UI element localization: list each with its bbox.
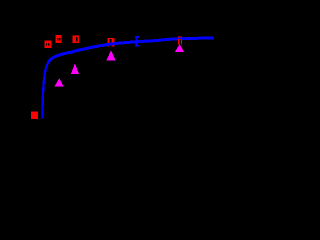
square S1	[44, 41, 51, 48]
triangle T2	[71, 63, 79, 73]
square S5	[178, 36, 182, 44]
blue theory curve (steep rise)	[42, 60, 50, 119]
square S6 (filled red, bottom left)	[31, 112, 38, 119]
triangle T4	[175, 44, 184, 52]
blue theory curve (saturation part)	[48, 38, 213, 62]
square S2	[56, 35, 62, 43]
blue error-bar data point	[135, 36, 139, 46]
triangle T3	[106, 50, 115, 60]
triangle T1	[54, 78, 64, 87]
square S4	[107, 38, 114, 47]
chart: excitation-function style plot on black background	[0, 0, 225, 158]
square S3	[73, 36, 79, 44]
